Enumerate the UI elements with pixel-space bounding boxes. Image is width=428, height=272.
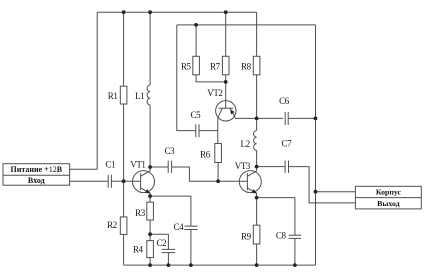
wire VT3 emitter node to C8	[257, 198, 295, 236]
node R5/R7 junction	[224, 80, 228, 84]
transistor VT2 emitter arrow	[230, 109, 234, 114]
wire C4 bottom to ground rail	[190, 230, 192, 266]
svg-text:Корпус: Корпус	[376, 188, 402, 197]
node R6 bottom / VT3 base	[216, 179, 220, 183]
svg-text:L2: L2	[240, 139, 249, 149]
node R9 ground	[255, 263, 259, 267]
wire emitter node to R9	[256, 198, 258, 226]
svg-text:C4: C4	[174, 222, 185, 232]
node C2 ground	[167, 263, 171, 267]
svg-text:C8: C8	[276, 231, 287, 241]
wire base node to R2 top	[123, 181, 125, 217]
inductor L2 wire from R8 node	[256, 118, 258, 130]
transistor VT3 collector lead	[247, 167, 256, 177]
svg-text:R7: R7	[210, 61, 221, 71]
node R5 second rail	[194, 23, 198, 27]
transistor VT1 collector lead	[141, 167, 151, 176]
wire L1 bottom to VT1 collector node	[149, 105, 151, 167]
svg-text:L1: L1	[135, 91, 144, 101]
wire R4 bottom to ground rail	[149, 258, 151, 266]
svg-text:R6: R6	[200, 149, 211, 159]
capacitor C1	[108, 175, 111, 188]
transistor VT1 emitter lead	[141, 188, 151, 196]
wire R3/R4 node to C2	[150, 234, 168, 249]
transistor VT2 base bar	[219, 107, 233, 109]
transistor VT1 circle	[133, 171, 155, 193]
transistor VT2 collector lead down-left to R6/C5	[218, 108, 223, 143]
wire C2 bottom to ground rail	[167, 253, 169, 266]
wire L1 column from top rail	[149, 12, 151, 85]
node VT1 base	[122, 179, 126, 183]
node C8 ground	[293, 263, 297, 267]
wire Korpus from right rail	[316, 191, 356, 193]
svg-text:C6: C6	[279, 96, 290, 106]
capacitor C5	[196, 124, 199, 137]
node R4 ground	[148, 263, 152, 267]
svg-text:R9: R9	[241, 231, 252, 241]
wire input from Vhod box to C1	[70, 180, 109, 182]
svg-text:R3: R3	[135, 208, 146, 218]
wire bottom ground rail	[124, 264, 316, 266]
capacitor C7	[285, 161, 288, 173]
wire R7 column from top rail	[225, 12, 227, 56]
node VT3 emitter	[255, 196, 259, 200]
capacitor C4	[184, 226, 197, 229]
transistor VT3 circle	[239, 171, 261, 193]
capacitor C3	[168, 161, 171, 173]
node R1 top rail	[122, 10, 126, 14]
capacitor C2	[162, 249, 176, 252]
inductor L1	[147, 85, 150, 105]
node R7 top rail	[224, 10, 228, 14]
svg-text:C2: C2	[157, 238, 167, 248]
transistor VT2 circle	[216, 101, 236, 121]
svg-text:R5: R5	[181, 61, 192, 71]
wire node to R4	[149, 234, 151, 240]
wire R7 bottom to VT2 base	[225, 75, 227, 108]
resistor R5	[193, 56, 200, 75]
wire R1 column from top rail	[123, 12, 125, 86]
transistor VT3 emitter arrow	[252, 189, 258, 193]
wire VT1 emitter node to C4	[150, 196, 191, 226]
transistor VT3 emitter lead	[247, 188, 256, 198]
wire VT1 base lead	[124, 180, 141, 182]
wire R8 bottom to emitter line	[256, 75, 258, 119]
wire R5 bottom to R7 bottom	[196, 75, 226, 82]
wire C6 to right rail	[288, 117, 315, 119]
wire R9 bottom to ground rail	[256, 244, 258, 265]
node VT3 collector	[255, 165, 259, 169]
wire C7 to Vyhod box	[289, 167, 356, 203]
inductor L2	[254, 131, 257, 151]
wire collector node to C3	[150, 166, 168, 168]
svg-text:Питание +12В: Питание +12В	[11, 165, 63, 174]
transistor VT2 emitter lead to the right line	[230, 108, 283, 118]
node R3/R4	[148, 232, 152, 236]
transistor VT1 emitter arrow	[145, 189, 151, 193]
svg-text:R1: R1	[108, 91, 118, 101]
wire second rail (ground return) y=24.9	[177, 24, 316, 26]
wire R6 bottom to base line	[217, 163, 219, 182]
resistor R6	[215, 144, 222, 163]
svg-text:C3: C3	[165, 146, 176, 156]
resistor R7	[222, 56, 229, 75]
wire emitter node to R3	[149, 196, 151, 202]
svg-text:VT1: VT1	[130, 160, 145, 170]
wire R1 bottom to base node	[123, 104, 125, 181]
wire C1 to VT1 base node	[111, 180, 123, 182]
svg-text:R2: R2	[107, 220, 117, 230]
svg-text:R4: R4	[133, 244, 144, 254]
resistor R3	[147, 202, 154, 220]
wire right rail	[315, 25, 317, 265]
resistor R1	[120, 86, 127, 104]
capacitor C5 left wire from second rail	[177, 25, 196, 131]
transistor VT1 base bar	[140, 173, 142, 190]
wire C5 to VT2 collector column	[199, 130, 218, 132]
node C6 right rail	[314, 117, 318, 121]
capacitor C8	[289, 235, 301, 238]
resistor R9	[253, 225, 260, 244]
svg-text:R8: R8	[241, 61, 252, 71]
capacitor C7 wire from collector node	[257, 166, 286, 168]
resistor R4	[147, 241, 154, 258]
wire C8 bottom to ground rail	[294, 238, 296, 265]
terminal box Korpus/Vyhod	[355, 186, 421, 209]
svg-text:C5: C5	[191, 110, 202, 120]
wire C3 to R6 bottom node and VT3 base	[172, 167, 248, 181]
resistor R8	[253, 56, 260, 75]
node R8/L2 emitter line	[255, 117, 259, 121]
node L1 top rail	[148, 10, 152, 14]
wire R3 bottom to R4 node	[149, 220, 151, 234]
wire top +12V rail	[97, 11, 256, 13]
node Korpus right rail	[314, 190, 318, 194]
wire R5 column from second rail	[195, 25, 197, 56]
svg-text:VT3: VT3	[235, 161, 251, 171]
node VT1 emitter	[148, 194, 152, 198]
capacitor C6	[285, 112, 288, 125]
svg-text:VT2: VT2	[207, 88, 222, 98]
transistor VT3 base bar	[246, 173, 248, 190]
node C4 ground	[189, 263, 193, 267]
wire R8 column from top rail corner	[256, 12, 258, 56]
svg-text:Выход: Выход	[377, 199, 400, 208]
svg-text:C1: C1	[105, 160, 115, 170]
svg-text:Вход: Вход	[28, 176, 45, 185]
wire L2 bottom to VT3 collector node	[256, 150, 258, 166]
wire left rail down to Pitanie box	[70, 12, 98, 169]
terminal box Pitanie/Vhod	[3, 164, 70, 186]
node VT1 collector	[148, 165, 152, 169]
resistor R2	[120, 217, 127, 235]
wire R2 bottom to ground rail	[123, 234, 125, 265]
svg-text:C7: C7	[282, 138, 293, 148]
